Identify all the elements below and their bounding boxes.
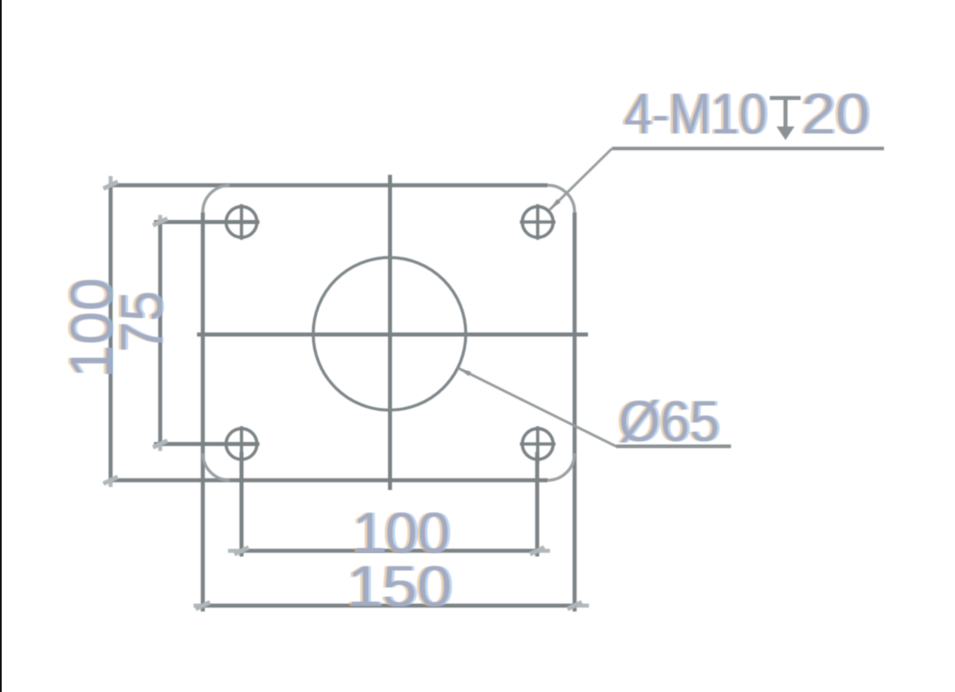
hole TL: circle + cross — [224, 204, 260, 240]
dim 150 overhang right — [575, 604, 589, 608]
plate left edge + extension down to 150-dim — [201, 212, 205, 611]
tick bottom of left 100 dim — [103, 477, 117, 484]
text 150 — [345, 555, 455, 619]
dim 75 overhang bottom — [158, 444, 162, 451]
left black page border — [0, 0, 2, 692]
tick left of 150 dim — [196, 602, 210, 609]
text 20 — [799, 82, 872, 146]
dim 75: dimension line — [158, 222, 162, 444]
plate bottom edge + left extension to 100-dim — [110, 478, 548, 482]
dim 100 left overhang bottom — [109, 480, 113, 487]
svg-text:75: 75 — [110, 291, 174, 353]
plate corner arc BL — [203, 453, 230, 480]
extension line 75 top to hole TL — [154, 220, 259, 224]
text 75 rotated — [108, 291, 177, 353]
extension line from hole BR down — [535, 452, 539, 557]
leader for 4-M10: diagonal to hole TR — [550, 149, 612, 210]
leader for 4-M10: shoulder under text — [612, 147, 884, 151]
text O65 — [616, 390, 722, 454]
dim 100 left: dimension line — [109, 185, 113, 480]
vertical center line — [388, 175, 392, 490]
plate right edge + extension down to 150-dim — [573, 212, 577, 611]
tick right of bottom 100 dim — [530, 547, 544, 554]
dim 150: dimension line — [203, 604, 575, 608]
text 100 left rotated — [57, 278, 126, 379]
hole TR: circle + cross — [520, 204, 556, 240]
text 4-M10 — [622, 82, 770, 146]
plate corner arc TR — [548, 185, 575, 212]
depth symbol — [770, 98, 801, 128]
hole BR: circle + cross — [520, 426, 556, 463]
big circle O65 — [313, 258, 466, 411]
tick left of bottom 100 dim — [234, 547, 248, 554]
dim 75 overhang top — [158, 215, 162, 222]
dim 100 bottom: dimension line — [242, 549, 538, 553]
svg-text:20: 20 — [802, 82, 870, 146]
plate corner arc BR — [548, 453, 575, 480]
dim 150 overhang left — [194, 604, 203, 608]
text 100 bottom — [350, 502, 453, 566]
tick right of 150 dim — [567, 602, 581, 609]
plate corner arc TL — [203, 185, 230, 212]
extension line 75 bottom to hole BL — [154, 442, 259, 446]
tick bottom of 75 dim — [153, 441, 167, 448]
leader for O65: diagonal from circle — [458, 368, 616, 446]
extension line from hole BL down — [240, 452, 244, 557]
dim 100 bottom overhang right — [537, 549, 550, 553]
horizontal center line — [197, 333, 588, 337]
arrowhead at hole TR — [550, 199, 561, 210]
dim 100 left overhang top — [109, 176, 113, 185]
plate top edge + left extension to 100-dim — [110, 183, 548, 187]
leader for O65: shoulder under text — [616, 444, 731, 448]
svg-text:150: 150 — [347, 555, 452, 619]
tick top of left 100 dim — [103, 182, 117, 189]
svg-text:Ø65: Ø65 — [619, 390, 720, 454]
tick top of 75 dim — [153, 219, 167, 226]
arrowhead at circle edge — [458, 368, 471, 376]
dim 100 bottom overhang left — [228, 549, 242, 553]
svg-text:4-M10: 4-M10 — [624, 82, 767, 146]
hole BL: circle + cross — [224, 426, 260, 463]
